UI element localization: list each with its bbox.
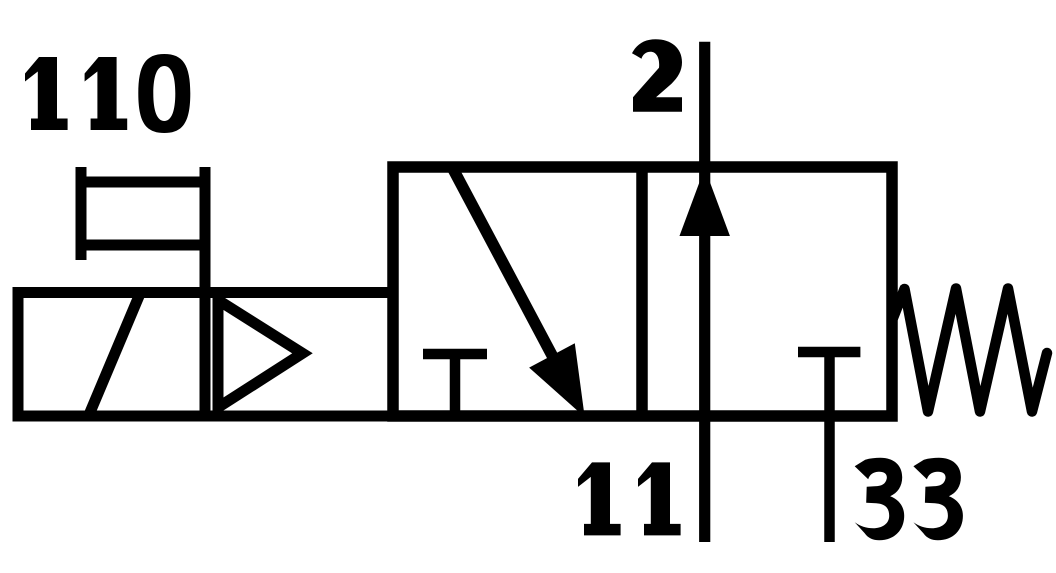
right box up arrowhead	[681, 171, 729, 235]
port 2 line	[699, 42, 710, 542]
pilot triangle	[218, 300, 303, 408]
port 11 label	[578, 462, 681, 535]
solenoid / pilot divider	[200, 293, 211, 417]
left box flow arrow shaft	[452, 167, 567, 384]
left box arrowhead	[533, 346, 582, 412]
solenoid connector symbol	[76, 167, 211, 293]
valve body	[393, 167, 892, 416]
label 110	[25, 54, 190, 133]
solenoid and pilot box	[18, 293, 393, 417]
port 2 label	[632, 39, 682, 112]
left box blocked port T	[423, 354, 487, 416]
bottom rail	[13, 411, 897, 422]
solenoid coil diagonal	[89, 293, 141, 417]
return spring	[893, 289, 1047, 412]
port 33 label	[855, 458, 963, 541]
right box blocked port T	[798, 352, 860, 542]
valve position divider	[636, 167, 648, 416]
